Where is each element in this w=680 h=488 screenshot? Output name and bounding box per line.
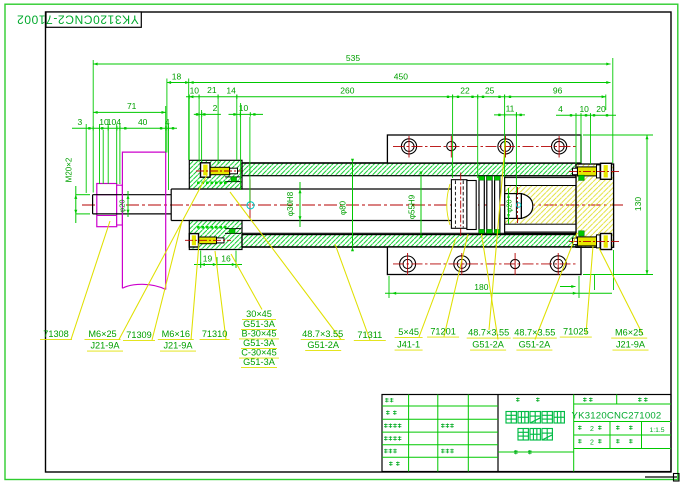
top flange hole centerlines	[393, 145, 578, 147]
main centerline	[82, 204, 625, 206]
gland bottom seal (green)	[230, 229, 236, 234]
svg-text:YK3120CNC271002: YK3120CNC271002	[572, 410, 662, 421]
svg-text:5×45: 5×45	[398, 327, 419, 337]
svg-text:J21-9A: J21-9A	[616, 340, 646, 350]
title block	[382, 395, 671, 472]
svg-text:G51-3A: G51-3A	[243, 357, 276, 367]
backup ring yellow arcs	[447, 184, 450, 225]
rod tip	[505, 194, 522, 219]
dimension phi80	[352, 163, 354, 247]
piston seal rings	[479, 176, 484, 233]
svg-text:19: 19	[203, 253, 213, 263]
svg-text:G51-2A: G51-2A	[519, 340, 552, 350]
svg-text:M6×25: M6×25	[88, 329, 116, 339]
svg-text:21: 21	[207, 85, 217, 95]
dimension 450	[189, 82, 610, 84]
tube contour lines	[242, 162, 576, 164]
rear head boss hatch	[505, 186, 576, 225]
corner title box	[46, 12, 141, 27]
svg-text:260: 260	[340, 86, 354, 96]
dimension phi30H8	[299, 182, 301, 227]
gland seal dashes top	[197, 182, 228, 185]
svg-text:M6×25: M6×25	[615, 328, 643, 338]
dimension 130	[646, 135, 648, 275]
piston rod left shaft	[93, 195, 172, 214]
svg-text:φ30H8: φ30H8	[286, 191, 295, 216]
cylinder tube top wall	[242, 163, 576, 176]
piston spacer ring	[467, 181, 476, 230]
piston backup ring (dashed)	[451, 180, 467, 229]
svg-text:96: 96	[553, 86, 563, 96]
svg-text:C-30×45: C-30×45	[241, 348, 277, 358]
svg-text:J41-1: J41-1	[397, 340, 420, 350]
front gland bottom (hatched)	[189, 221, 242, 250]
dimension phi20 wheel	[127, 191, 129, 217]
bore bottom line	[242, 232, 576, 234]
svg-text:YK3120CNC2-71002: YK3120CNC2-71002	[16, 13, 138, 27]
gland bolt top	[196, 163, 243, 177]
rear bolt bottom	[569, 234, 620, 250]
bottom flange holes	[400, 256, 416, 272]
svg-text:B-30×45: B-30×45	[242, 328, 277, 338]
dimension 180	[385, 292, 612, 294]
rod tip dome	[521, 194, 532, 219]
drawing title	[506, 412, 516, 424]
cylinder tube bottom wall	[242, 235, 576, 247]
rear bottom seal square	[579, 231, 585, 236]
svg-text:71025: 71025	[563, 327, 589, 337]
backup ring centerline	[460, 173, 462, 237]
svg-text:4: 4	[558, 104, 563, 114]
svg-text:G51-3A: G51-3A	[243, 338, 276, 348]
svg-text:22: 22	[460, 86, 470, 96]
dimension 11	[494, 114, 525, 116]
rear top seal square	[579, 175, 585, 180]
datum marker mid	[247, 202, 254, 209]
dimension M20x2	[75, 186, 77, 223]
top flange holes	[401, 139, 416, 154]
rear head plate	[576, 164, 614, 247]
hex nut M20 (magenta)	[97, 184, 117, 227]
bottom flange hole centerlines	[393, 263, 578, 265]
rear head bottom slot	[505, 224, 576, 232]
svg-text:48.7×3.55: 48.7×3.55	[468, 328, 509, 338]
dimension 10b	[229, 113, 264, 115]
top mounting flange	[387, 135, 581, 163]
dimension chain 3 10 10 4 40 4	[72, 127, 177, 129]
dimension 535	[93, 63, 610, 65]
piston rod	[171, 189, 452, 221]
svg-text:180: 180	[474, 282, 488, 292]
dimension 18	[167, 82, 190, 84]
svg-text:φ80: φ80	[339, 200, 348, 215]
svg-text:M20×2: M20×2	[65, 157, 74, 182]
svg-text:G51-3A: G51-3A	[243, 319, 276, 329]
handwheel (magenta)	[122, 152, 165, 289]
svg-text:φ55H9: φ55H9	[408, 194, 417, 219]
rear head boss outline	[505, 176, 576, 234]
rear head top slot	[505, 178, 576, 186]
svg-text:10: 10	[579, 104, 589, 114]
rear bolt top	[569, 163, 620, 179]
svg-text:20: 20	[596, 104, 606, 114]
svg-text:2: 2	[590, 426, 594, 433]
svg-text:φ20: φ20	[118, 199, 127, 212]
gland bolt bottom	[185, 234, 231, 247]
dimension phi20 rod tip	[508, 188, 510, 224]
svg-text:2: 2	[213, 103, 218, 113]
svg-text:71201: 71201	[430, 327, 456, 337]
svg-text:48.7×3.55: 48.7×3.55	[302, 329, 343, 339]
svg-text:1:1.5: 1:1.5	[649, 427, 664, 434]
svg-text:71310: 71310	[202, 329, 228, 339]
dimension 4 10 20	[556, 114, 616, 116]
front gland top (hatched)	[189, 160, 242, 189]
svg-text:φ20: φ20	[505, 199, 514, 212]
svg-text:450: 450	[394, 72, 408, 82]
svg-text:71: 71	[127, 101, 137, 111]
svg-text:71309: 71309	[126, 330, 152, 340]
svg-text:J21-9A: J21-9A	[90, 341, 120, 351]
svg-text:25: 25	[485, 86, 495, 96]
svg-text:14: 14	[226, 86, 236, 96]
svg-text:535: 535	[346, 53, 360, 63]
svg-text:J21-9A: J21-9A	[163, 341, 193, 351]
washer	[117, 185, 123, 225]
svg-text:4: 4	[116, 117, 121, 127]
svg-text:18: 18	[172, 72, 182, 82]
svg-text:40: 40	[138, 117, 148, 127]
gland top step lines	[225, 176, 241, 178]
svg-text:130: 130	[633, 197, 643, 211]
svg-text:10: 10	[190, 86, 200, 96]
gland seal dashes bottom	[197, 226, 228, 229]
gland bottom step lines	[225, 228, 241, 230]
svg-text:11: 11	[506, 103, 515, 113]
dimension phi55H9	[420, 176, 422, 234]
handwheel wavy break line	[122, 284, 165, 289]
dimension 2	[194, 113, 221, 115]
svg-text:71311: 71311	[357, 330, 382, 340]
svg-text:48.7×3.55: 48.7×3.55	[514, 328, 555, 338]
svg-text:2: 2	[590, 440, 594, 447]
datum marker rod tip	[516, 203, 520, 207]
svg-text:71308: 71308	[43, 329, 69, 339]
extension lines	[92, 60, 94, 193]
part leaders	[71, 221, 110, 340]
svg-text:16: 16	[221, 253, 231, 263]
gland top seal (green)	[231, 177, 237, 182]
aux green segment	[560, 286, 576, 288]
svg-text:G51-2A: G51-2A	[307, 340, 340, 350]
bottom mounting flange	[387, 247, 581, 275]
svg-text:G51-2A: G51-2A	[472, 340, 505, 350]
rod tip centerline	[517, 187, 519, 225]
dimension 19 16	[194, 264, 242, 266]
svg-text:M6×16: M6×16	[162, 329, 190, 339]
dimension 71	[93, 111, 165, 113]
datum centerline mid	[249, 179, 251, 218]
title block small texts	[385, 398, 389, 402]
dimension chain 10 21 14 260 22 25 96	[186, 96, 606, 98]
svg-text:30×45: 30×45	[246, 309, 272, 319]
frame fold mark	[645, 476, 677, 478]
svg-text:3: 3	[78, 117, 83, 127]
